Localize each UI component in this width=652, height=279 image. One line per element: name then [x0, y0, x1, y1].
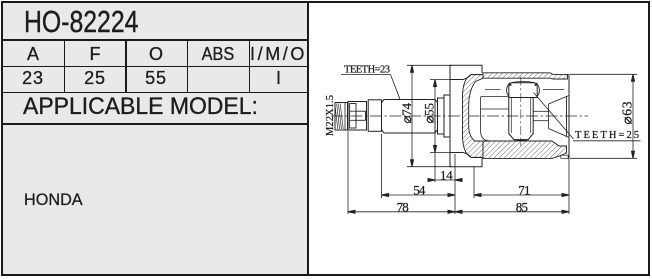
svg-text:TEETH=23: TEETH=23	[344, 65, 390, 76]
svg-text:54: 54	[413, 183, 426, 198]
svg-text:TEETH=25: TEETH=25	[575, 130, 639, 141]
svg-text:85: 85	[516, 199, 528, 214]
svg-text:M22X1.5: M22X1.5	[325, 95, 336, 136]
svg-text:78: 78	[397, 199, 409, 214]
svg-text:14: 14	[440, 168, 453, 183]
svg-text:71: 71	[518, 183, 530, 198]
svg-text:⌀74: ⌀74	[399, 103, 414, 124]
svg-text:⌀55: ⌀55	[422, 103, 437, 124]
svg-text:⌀63: ⌀63	[620, 101, 635, 124]
